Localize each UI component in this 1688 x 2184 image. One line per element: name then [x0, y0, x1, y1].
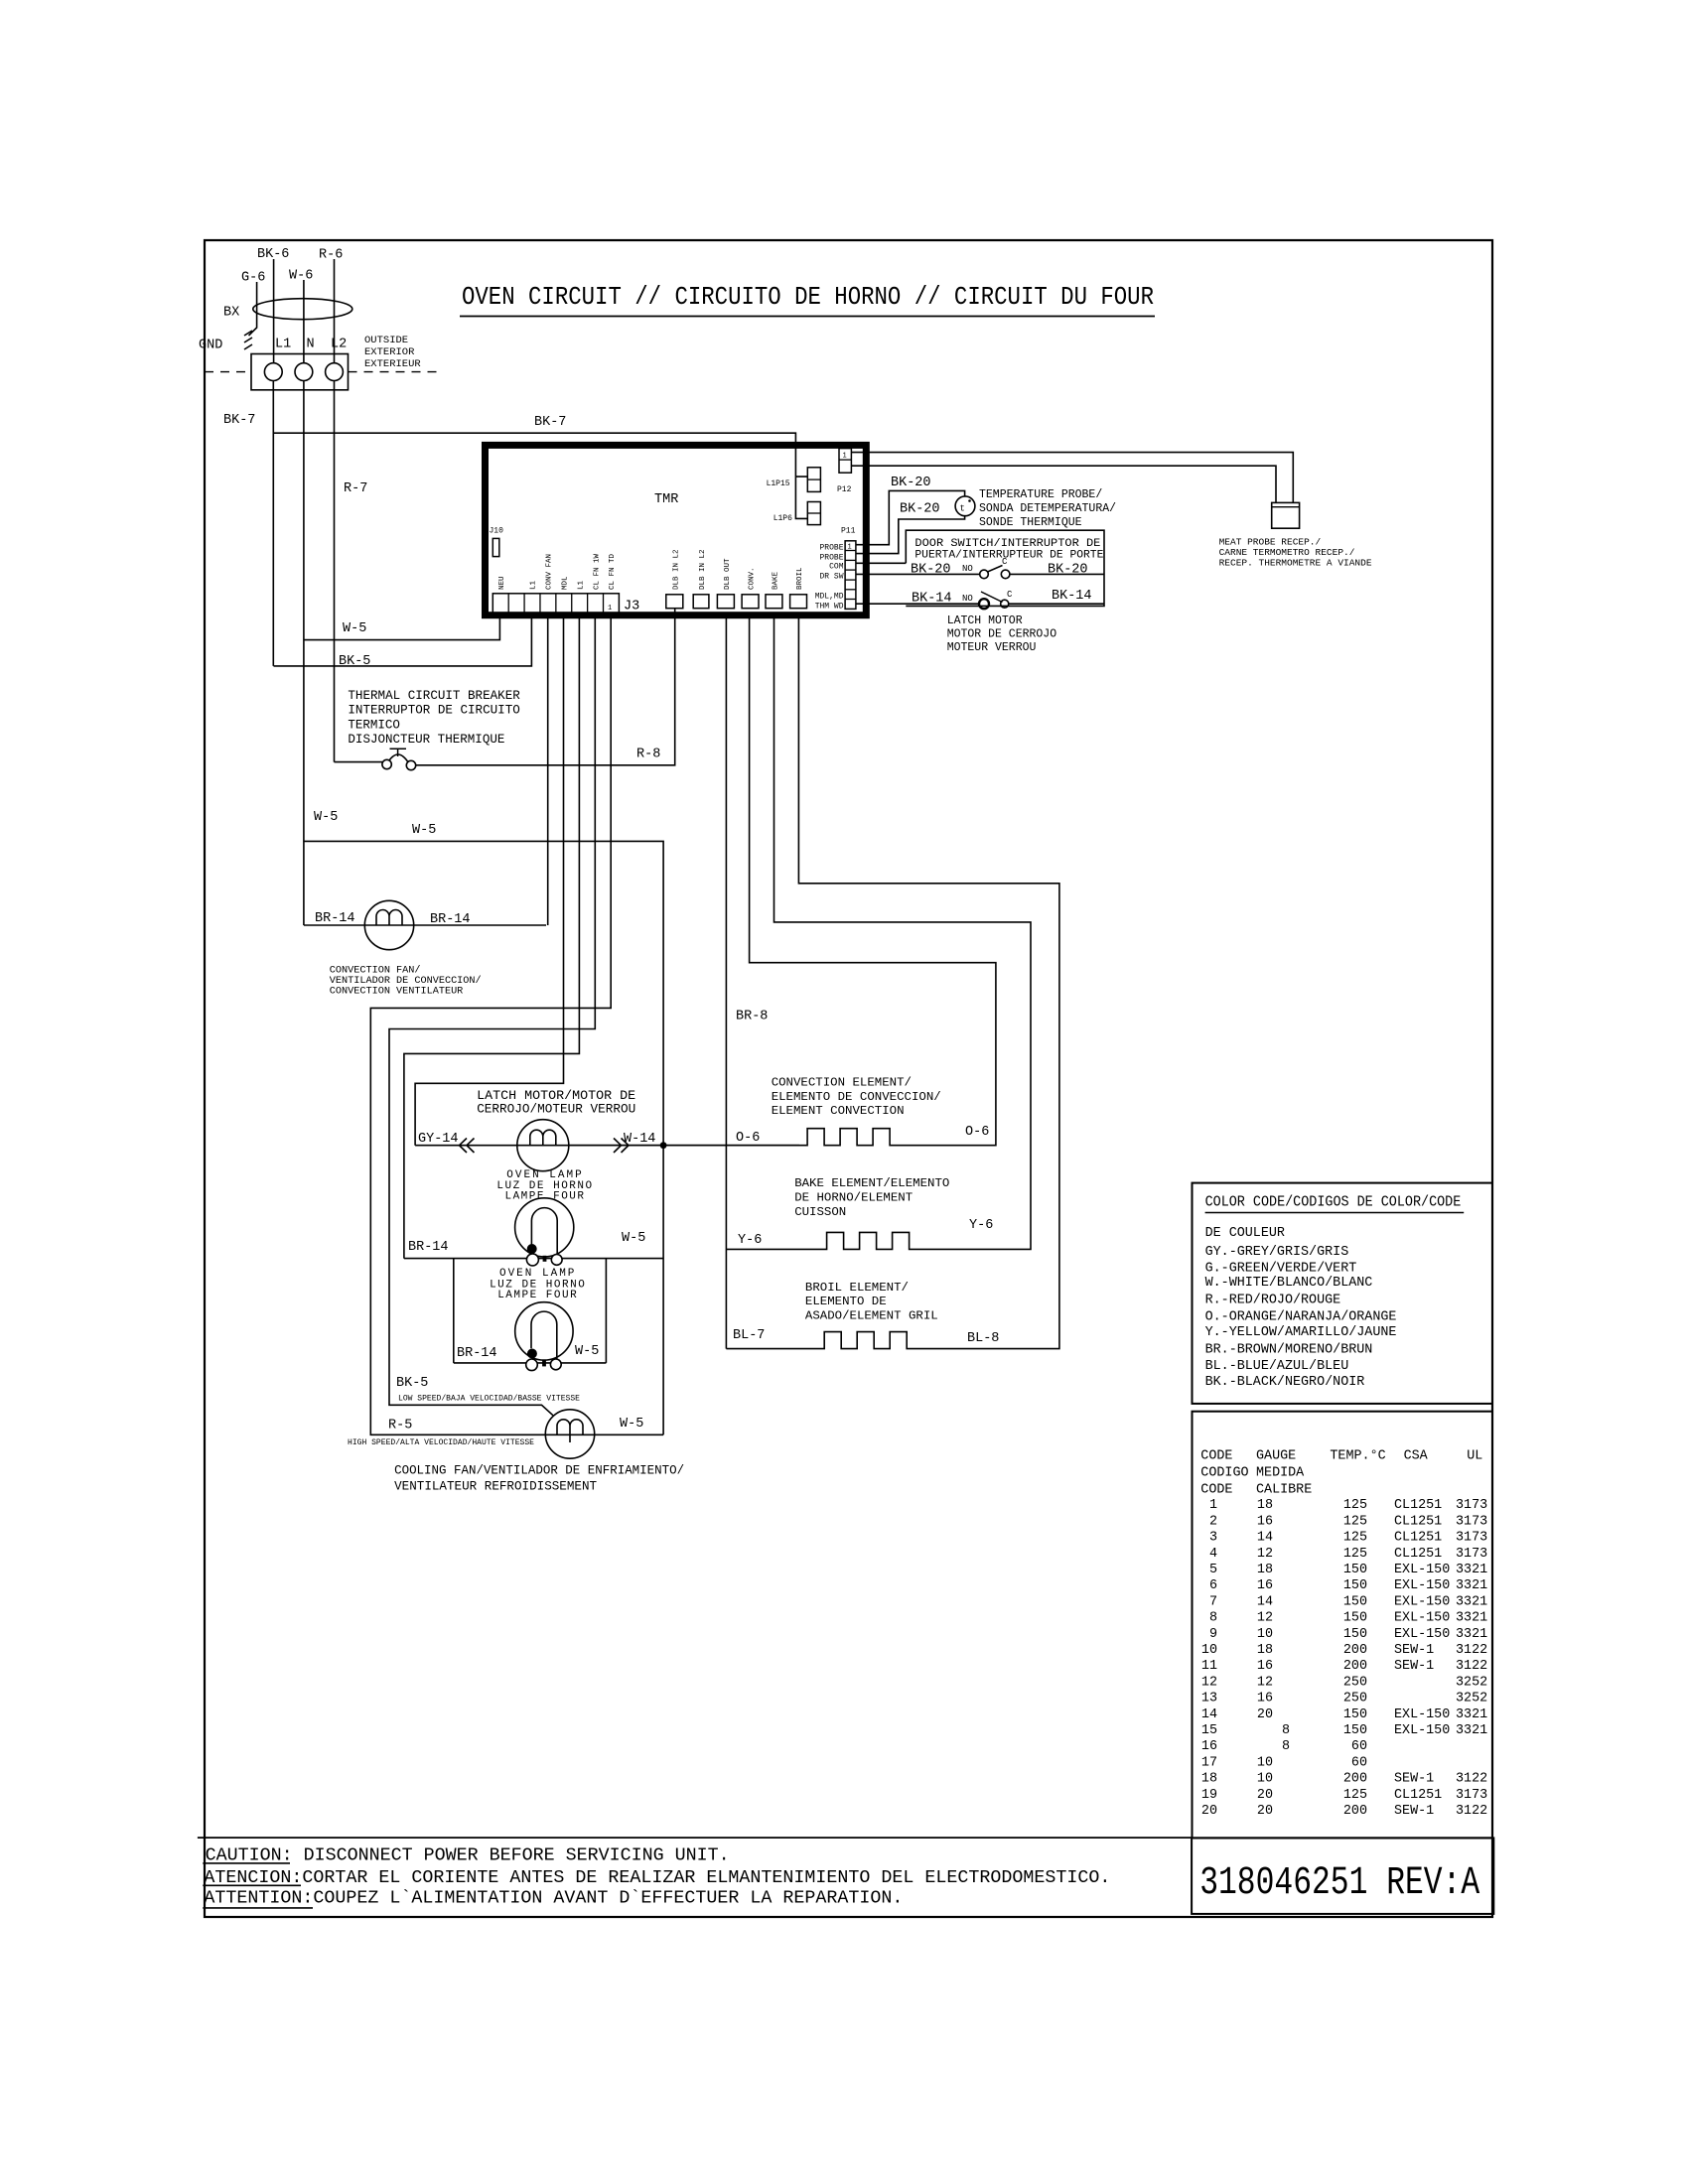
svg-text:250: 250: [1343, 1675, 1367, 1690]
svg-text:W-5: W-5: [575, 1344, 599, 1359]
svg-text:3252: 3252: [1456, 1675, 1487, 1690]
svg-text:CL1251: CL1251: [1394, 1531, 1442, 1546]
svg-text:OVEN CIRCUIT // CIRCUITO DE HO: OVEN CIRCUIT // CIRCUITO DE HORNO // CIR…: [462, 282, 1154, 312]
svg-text:DLB OUT: DLB OUT: [724, 558, 732, 590]
latch motor symbol: [517, 1120, 569, 1171]
svg-text:20: 20: [1257, 1788, 1273, 1803]
svg-text:L1: L1: [577, 580, 585, 590]
svg-text:13: 13: [1201, 1692, 1217, 1706]
svg-text:R-7: R-7: [344, 481, 367, 496]
svg-text:R-8: R-8: [636, 748, 660, 762]
wire conv fan to TMR: [547, 614, 549, 925]
svg-text:ATTENTION:COUPEZ L`ALIMENTATIO: ATTENTION:COUPEZ L`ALIMENTATION AVANT D`…: [204, 1889, 903, 1909]
svg-text:BL-8: BL-8: [967, 1331, 999, 1346]
terminal N circle: [295, 363, 313, 381]
svg-text:SEW-1: SEW-1: [1394, 1804, 1434, 1819]
svg-text:CL1251: CL1251: [1394, 1547, 1442, 1562]
wire L2 vertical R: [334, 381, 336, 762]
wire DR SW: [856, 573, 980, 575]
svg-text:DLB IN L2: DLB IN L2: [699, 549, 707, 590]
wire latch left: [415, 1145, 799, 1147]
svg-text:ELEMENT CONVECTION: ELEMENT CONVECTION: [772, 1104, 905, 1118]
svg-text:CL1251: CL1251: [1394, 1514, 1442, 1529]
svg-text:CONV FAN: CONV FAN: [546, 554, 554, 590]
svg-text:3173: 3173: [1456, 1547, 1487, 1562]
connector P12 top: [839, 449, 851, 474]
svg-text:CERROJO/MOTEUR VERROU: CERROJO/MOTEUR VERROU: [477, 1102, 635, 1117]
connector J10: [492, 538, 499, 556]
svg-text:GND: GND: [199, 338, 222, 352]
svg-text:TMR: TMR: [654, 492, 678, 507]
gauge table box: [1193, 1412, 1493, 1839]
svg-text:BR-8: BR-8: [736, 1010, 768, 1024]
svg-text:125: 125: [1343, 1514, 1367, 1529]
wire W-6: [303, 280, 305, 363]
oven lamp 1: [515, 1198, 574, 1257]
chevrons left: [460, 1139, 475, 1154]
svg-text:20: 20: [1201, 1804, 1217, 1819]
svg-text:15: 15: [1201, 1723, 1217, 1738]
BX cable ellipse: [253, 299, 352, 320]
svg-text:3321: 3321: [1456, 1627, 1487, 1642]
svg-text:125: 125: [1343, 1547, 1367, 1562]
svg-text:EXL-150: EXL-150: [1394, 1723, 1450, 1738]
svg-text:BK-20: BK-20: [1048, 562, 1088, 577]
lamp 1 terminals: [526, 1254, 538, 1266]
svg-text:C: C: [1007, 590, 1013, 600]
wire R-8: [416, 609, 675, 765]
svg-text:60: 60: [1351, 1739, 1367, 1754]
svg-text:14: 14: [1257, 1531, 1273, 1546]
svg-text:1: 1: [843, 453, 847, 461]
svg-text:NEU: NEU: [498, 576, 506, 590]
wire lamp row 1: [404, 1258, 663, 1260]
dashed partition line: [205, 371, 438, 373]
svg-text:MEDIDA: MEDIDA: [1256, 1465, 1305, 1480]
door switch box: [906, 530, 1104, 606]
thermal breaker symbol: [335, 761, 383, 763]
svg-text:R-5: R-5: [388, 1419, 412, 1433]
svg-text:EXL-150: EXL-150: [1394, 1594, 1450, 1609]
wire BK-6: [273, 259, 275, 363]
svg-text:OVEN LAMP: OVEN LAMP: [499, 1268, 576, 1280]
svg-text:150: 150: [1343, 1578, 1367, 1593]
svg-text:LOW SPEED/BAJA VELOCIDAD/BASSE: LOW SPEED/BAJA VELOCIDAD/BASSE VITESSE: [398, 1395, 580, 1404]
svg-text:16: 16: [1257, 1514, 1273, 1529]
lamp 2 parallel box: [454, 1259, 607, 1363]
svg-text:CODE: CODE: [1200, 1448, 1232, 1463]
svg-text:150: 150: [1343, 1594, 1367, 1609]
connector L1P6: [807, 502, 820, 525]
svg-text:PROBE: PROBE: [819, 543, 843, 552]
svg-text:10: 10: [1257, 1772, 1273, 1787]
svg-text:DE HORNO/ELEMENT: DE HORNO/ELEMENT: [794, 1191, 913, 1205]
svg-text:RECEP. THERMOMETRE A VIANDE: RECEP. THERMOMETRE A VIANDE: [1219, 558, 1372, 569]
cooling fan motor: [545, 1410, 594, 1458]
svg-text:CODE: CODE: [1200, 1482, 1232, 1497]
svg-text:BAKE: BAKE: [772, 571, 779, 590]
meat probe receptacle: [1272, 502, 1300, 528]
svg-text:CUISSON: CUISSON: [794, 1205, 846, 1219]
svg-text:3173: 3173: [1456, 1788, 1487, 1803]
svg-text:BR.-BROWN/MORENO/BRUN: BR.-BROWN/MORENO/BRUN: [1205, 1343, 1373, 1358]
svg-text:BK-5: BK-5: [396, 1376, 428, 1391]
svg-text:BROIL ELEMENT/: BROIL ELEMENT/: [805, 1281, 909, 1295]
svg-text:C: C: [1002, 557, 1008, 567]
svg-text:W-6: W-6: [289, 269, 313, 284]
svg-text:5: 5: [1209, 1563, 1217, 1577]
svg-text:BK-7: BK-7: [534, 415, 566, 430]
svg-text:EXL-150: EXL-150: [1394, 1611, 1450, 1626]
svg-text:EXL-150: EXL-150: [1394, 1707, 1450, 1722]
svg-text:18: 18: [1257, 1498, 1273, 1513]
svg-text:6: 6: [1209, 1578, 1217, 1593]
svg-text:200: 200: [1343, 1659, 1367, 1674]
svg-text:BK.-BLACK/NEGRO/NOIR: BK.-BLACK/NEGRO/NOIR: [1205, 1375, 1365, 1390]
broil element symbol: [726, 614, 1059, 1349]
svg-text:R-6: R-6: [319, 248, 343, 263]
svg-text:318046251 REV:A: 318046251 REV:A: [1199, 1861, 1479, 1906]
svg-text:BK-14: BK-14: [912, 591, 952, 606]
svg-text:G.-GREEN/VERDE/VERT: G.-GREEN/VERDE/VERT: [1205, 1261, 1357, 1276]
svg-text:W.-WHITE/BLANCO/BLANC: W.-WHITE/BLANCO/BLANC: [1205, 1276, 1373, 1291]
connector J3: [492, 594, 619, 614]
svg-text:125: 125: [1343, 1531, 1367, 1546]
svg-text:CL1251: CL1251: [1394, 1498, 1442, 1513]
svg-text:W-5: W-5: [314, 810, 338, 825]
svg-text:EXL-150: EXL-150: [1394, 1563, 1450, 1577]
svg-text:GY.-GREY/GRIS/GRIS: GY.-GREY/GRIS/GRIS: [1205, 1245, 1349, 1260]
svg-text:EXL-150: EXL-150: [1394, 1627, 1450, 1642]
svg-text:8: 8: [1282, 1723, 1290, 1738]
svg-text:SONDE THERMIQUE: SONDE THERMIQUE: [979, 516, 1082, 529]
svg-text:4: 4: [1209, 1547, 1217, 1562]
svg-text:THM WD: THM WD: [815, 603, 844, 612]
svg-text:DR SW: DR SW: [819, 573, 843, 582]
svg-text:3: 3: [1209, 1531, 1217, 1546]
svg-text:3122: 3122: [1456, 1643, 1487, 1658]
svg-text:O-6: O-6: [965, 1125, 989, 1140]
svg-text:L1P15: L1P15: [767, 479, 790, 488]
svg-text:10: 10: [1201, 1643, 1217, 1658]
terminal block OUTSIDE: [251, 354, 349, 390]
svg-text:1: 1: [1209, 1498, 1217, 1513]
connector L1P15: [807, 468, 820, 492]
svg-text:EXTERIOR: EXTERIOR: [364, 346, 415, 358]
svg-text:3321: 3321: [1456, 1594, 1487, 1609]
control board TMR outline: [486, 445, 867, 614]
svg-text:LAMPE FOUR: LAMPE FOUR: [497, 1290, 578, 1301]
svg-text:ELEMENTO DE CONVECCION/: ELEMENTO DE CONVECCION/: [772, 1090, 941, 1104]
wire L1 vertical BK: [272, 381, 274, 666]
svg-text:BR-14: BR-14: [408, 1240, 449, 1255]
chevrons right: [614, 1139, 629, 1154]
svg-text:W-5: W-5: [343, 621, 366, 636]
svg-text:2: 2: [1209, 1514, 1217, 1529]
svg-text:BK-20: BK-20: [911, 562, 951, 577]
svg-text:BROIL: BROIL: [796, 567, 804, 590]
svg-text:250: 250: [1343, 1692, 1367, 1706]
svg-text:DE COULEUR: DE COULEUR: [1205, 1226, 1285, 1241]
svg-text:19: 19: [1201, 1788, 1217, 1803]
wire BK-5 low speed: [389, 614, 595, 1416]
svg-text:J3: J3: [624, 600, 639, 614]
svg-text:BR-14: BR-14: [430, 912, 471, 927]
svg-text:THERMAL CIRCUIT BREAKER: THERMAL CIRCUIT BREAKER: [348, 689, 520, 703]
svg-text:3321: 3321: [1456, 1578, 1487, 1593]
wire THM WD BK-14: [856, 603, 979, 605]
svg-text:3252: 3252: [1456, 1692, 1487, 1706]
svg-text:DISJONCTEUR THERMIQUE: DISJONCTEUR THERMIQUE: [348, 733, 504, 747]
svg-text:16: 16: [1257, 1692, 1273, 1706]
border frame: [205, 240, 1492, 1917]
wire BR-14 lamp feed: [404, 614, 580, 1259]
wire BK-5 pin3: [274, 614, 532, 666]
svg-text:EXL-150: EXL-150: [1394, 1578, 1450, 1593]
caution separator line: [198, 1837, 1192, 1839]
convection element symbol: [750, 614, 996, 1146]
svg-text:150: 150: [1343, 1723, 1367, 1738]
svg-text:N: N: [307, 338, 315, 352]
svg-text:CONV.: CONV.: [749, 567, 757, 590]
svg-text:OUTSIDE: OUTSIDE: [364, 335, 408, 346]
svg-text:PROBE: PROBE: [819, 553, 843, 562]
svg-text:3122: 3122: [1456, 1804, 1487, 1819]
terminal L1 circle: [264, 363, 282, 381]
svg-text:BAKE ELEMENT/ELEMENTO: BAKE ELEMENT/ELEMENTO: [794, 1176, 949, 1190]
svg-text:t: t: [960, 504, 965, 514]
svg-text:L2: L2: [331, 338, 347, 352]
svg-text:O-6: O-6: [736, 1131, 760, 1146]
svg-text:9: 9: [1209, 1627, 1217, 1642]
wire W-5 main: [304, 841, 663, 1434]
svg-text:125: 125: [1343, 1498, 1367, 1513]
svg-text:CONVECTION FAN/: CONVECTION FAN/: [330, 965, 421, 977]
wire COM: [856, 562, 906, 564]
svg-text:12: 12: [1201, 1675, 1217, 1690]
svg-text:BK-20: BK-20: [900, 502, 940, 517]
svg-text:BK-5: BK-5: [339, 654, 370, 669]
svg-text:8: 8: [1282, 1739, 1290, 1754]
svg-text:W-5: W-5: [620, 1417, 643, 1432]
color code box: [1193, 1183, 1493, 1404]
svg-text:200: 200: [1343, 1804, 1367, 1819]
svg-text:MEAT PROBE RECEP./: MEAT PROBE RECEP./: [1219, 537, 1322, 548]
svg-text:J10: J10: [490, 527, 504, 536]
svg-text:TEMP.°C: TEMP.°C: [1330, 1448, 1385, 1463]
svg-text:L1P6: L1P6: [774, 514, 792, 523]
wire latch right: [569, 1145, 799, 1147]
svg-text:CODIGO: CODIGO: [1200, 1465, 1248, 1480]
svg-text:16: 16: [1257, 1578, 1273, 1593]
svg-text:CL1251: CL1251: [1394, 1788, 1442, 1803]
svg-text:MDL,MD: MDL,MD: [815, 593, 844, 602]
svg-text:VENTILADOR DE CONVECCION/: VENTILADOR DE CONVECCION/: [330, 975, 482, 987]
svg-text:18: 18: [1257, 1563, 1273, 1577]
svg-text:P11: P11: [841, 527, 856, 536]
svg-text:16: 16: [1201, 1739, 1217, 1754]
svg-text:NO: NO: [962, 594, 973, 604]
svg-text:L1: L1: [275, 338, 291, 352]
svg-text:17: 17: [1201, 1755, 1217, 1770]
door switch contacts: [980, 570, 989, 579]
svg-text:ELEMENTO DE: ELEMENTO DE: [805, 1295, 887, 1308]
svg-text:16: 16: [1257, 1659, 1273, 1674]
convection fan motor: [364, 900, 413, 949]
svg-text:L1: L1: [530, 580, 538, 590]
svg-text:60: 60: [1351, 1755, 1367, 1770]
svg-text:7: 7: [1209, 1594, 1217, 1609]
wire to meat probe recep 2: [851, 466, 1276, 502]
svg-text:W-5: W-5: [412, 823, 436, 838]
svg-text:18: 18: [1257, 1643, 1273, 1658]
wire BR-14 conv fan: [304, 924, 546, 926]
svg-text:3173: 3173: [1456, 1498, 1487, 1513]
wire BR-8 vertical: [725, 614, 727, 1349]
svg-text:12: 12: [1257, 1611, 1273, 1626]
svg-text:BL.-BLUE/AZUL/BLEU: BL.-BLUE/AZUL/BLEU: [1205, 1359, 1349, 1374]
svg-text:VENTILATEUR REFROIDISSEMENT: VENTILATEUR REFROIDISSEMENT: [394, 1479, 597, 1494]
svg-text:R.-RED/ROJO/ROUGE: R.-RED/ROJO/ROUGE: [1205, 1294, 1341, 1308]
bake element symbol: [726, 614, 1031, 1249]
oven lamp 2: [515, 1302, 573, 1360]
svg-text:200: 200: [1343, 1772, 1367, 1787]
svg-text:BX: BX: [223, 306, 239, 321]
wire W-5 pin1: [304, 614, 500, 640]
svg-text:20: 20: [1257, 1804, 1273, 1819]
svg-text:10: 10: [1257, 1627, 1273, 1642]
wire N vertical W: [303, 381, 305, 926]
svg-text:MOTEUR VERROU: MOTEUR VERROU: [947, 641, 1037, 654]
svg-text:18: 18: [1201, 1772, 1217, 1787]
ground chassis symbol: [244, 282, 257, 349]
svg-text:O.-ORANGE/NARANJA/ORANGE: O.-ORANGE/NARANJA/ORANGE: [1205, 1309, 1397, 1324]
svg-text:P12: P12: [837, 485, 852, 494]
svg-text:HIGH SPEED/ALTA VELOCIDAD/HAUT: HIGH SPEED/ALTA VELOCIDAD/HAUTE VITESSE: [348, 1438, 534, 1447]
svg-text:1: 1: [848, 544, 852, 552]
svg-text:ATENCION:CORTAR EL CORIENTE AN: ATENCION:CORTAR EL CORIENTE ANTES DE REA…: [204, 1868, 1110, 1888]
svg-text:3173: 3173: [1456, 1531, 1487, 1546]
svg-text:BR-14: BR-14: [457, 1346, 497, 1361]
svg-text:UL: UL: [1467, 1448, 1482, 1463]
svg-text:MOTOR DE CERROJO: MOTOR DE CERROJO: [947, 628, 1057, 641]
svg-text:COOLING FAN/VENTILADOR DE ENFR: COOLING FAN/VENTILADOR DE ENFRIAMIENTO/: [394, 1463, 684, 1478]
svg-text:3122: 3122: [1456, 1659, 1487, 1674]
latch switch contacts: [979, 599, 989, 609]
svg-text:3321: 3321: [1456, 1723, 1487, 1738]
svg-text:11: 11: [1201, 1659, 1217, 1674]
connector P11 column: [845, 541, 856, 610]
svg-text:Y.-YELLOW/AMARILLO/JAUNE: Y.-YELLOW/AMARILLO/JAUNE: [1205, 1325, 1397, 1340]
svg-text:8: 8: [1209, 1611, 1217, 1626]
svg-text:150: 150: [1343, 1627, 1367, 1642]
svg-text:TERMICO: TERMICO: [348, 718, 400, 732]
svg-text:14: 14: [1257, 1594, 1273, 1609]
svg-text:LAMPE FOUR: LAMPE FOUR: [504, 1191, 585, 1203]
terminal L2 circle: [326, 363, 344, 381]
svg-text:SEW-1: SEW-1: [1394, 1772, 1434, 1787]
svg-text:10: 10: [1257, 1755, 1273, 1770]
svg-text:SONDA DETEMPERATURA/: SONDA DETEMPERATURA/: [979, 502, 1116, 515]
svg-text:NO: NO: [962, 564, 973, 574]
wire BK-7: [273, 433, 807, 518]
svg-text:3321: 3321: [1456, 1611, 1487, 1626]
svg-text:150: 150: [1343, 1563, 1367, 1577]
wire BK-20 probe upper: [856, 490, 965, 544]
wire GY-14 latch feed: [415, 614, 563, 1146]
svg-text:3173: 3173: [1456, 1514, 1487, 1529]
wire R-6: [334, 259, 336, 363]
svg-text:INTERRUPTOR DE CIRCUITO: INTERRUPTOR DE CIRCUITO: [348, 704, 519, 718]
svg-text:COLOR CODE/CODIGOS DE COLOR/CO: COLOR CODE/CODIGOS DE COLOR/CODE: [1205, 1195, 1462, 1211]
svg-text:EXTERIEUR: EXTERIEUR: [364, 358, 421, 370]
svg-text:CL FN 1W: CL FN 1W: [593, 553, 601, 590]
temperature probe symbol: [955, 496, 975, 516]
svg-text:DLB IN L2: DLB IN L2: [672, 549, 680, 590]
svg-text:BK-7: BK-7: [223, 413, 255, 428]
wire BK-20 probe lower: [856, 516, 965, 554]
svg-text:W-5: W-5: [622, 1231, 645, 1246]
svg-text:CONVECTION VENTILATEUR: CONVECTION VENTILATEUR: [330, 987, 464, 998]
svg-text:12: 12: [1257, 1675, 1273, 1690]
svg-text:Y-6: Y-6: [738, 1233, 762, 1248]
svg-text:125: 125: [1343, 1788, 1367, 1803]
svg-text:Y-6: Y-6: [969, 1218, 993, 1233]
svg-text:BL-7: BL-7: [733, 1328, 765, 1343]
svg-text:DOOR SWITCH/INTERRUPTOR DE: DOOR SWITCH/INTERRUPTOR DE: [914, 538, 1100, 550]
svg-text:TEMPERATURE PROBE/: TEMPERATURE PROBE/: [979, 488, 1102, 501]
svg-text:GY-14: GY-14: [418, 1132, 459, 1147]
lamp 2 terminals: [526, 1359, 538, 1371]
svg-text:CALIBRE: CALIBRE: [1256, 1482, 1312, 1497]
svg-text:BR-14: BR-14: [315, 911, 355, 926]
svg-text:ASADO/ELEMENT GRIL: ASADO/ELEMENT GRIL: [805, 1308, 938, 1322]
svg-text:BK-14: BK-14: [1052, 589, 1092, 604]
wire R-5 high speed: [370, 614, 663, 1434]
svg-text:150: 150: [1343, 1707, 1367, 1722]
svg-text:SEW-1: SEW-1: [1394, 1659, 1434, 1674]
TMR output connectors: [666, 595, 683, 609]
svg-text:3122: 3122: [1456, 1772, 1487, 1787]
svg-text:12: 12: [1257, 1547, 1273, 1562]
svg-text:BK-20: BK-20: [891, 476, 931, 490]
part number box: [1192, 1838, 1493, 1914]
svg-text:14: 14: [1201, 1707, 1217, 1722]
svg-text:G-6: G-6: [241, 271, 265, 286]
svg-text:SEW-1: SEW-1: [1394, 1643, 1434, 1658]
svg-text:CARNE TERMOMETRO RECEP./: CARNE TERMOMETRO RECEP./: [1219, 547, 1355, 558]
svg-text:150: 150: [1343, 1611, 1367, 1626]
svg-text:3321: 3321: [1456, 1707, 1487, 1722]
wire to meat probe recep 1: [851, 453, 1293, 503]
svg-text:1: 1: [608, 605, 612, 613]
svg-text:200: 200: [1343, 1643, 1367, 1658]
svg-text:3321: 3321: [1456, 1563, 1487, 1577]
svg-text:LATCH MOTOR: LATCH MOTOR: [947, 614, 1023, 627]
svg-text:GAUGE: GAUGE: [1256, 1448, 1296, 1463]
junction dot W net: [660, 1142, 667, 1149]
svg-text:COM: COM: [829, 563, 844, 572]
svg-text:PUERTA/INTERRUPTEUR DE PORTE: PUERTA/INTERRUPTEUR DE PORTE: [914, 550, 1103, 562]
svg-text:MDL: MDL: [562, 576, 570, 590]
svg-text:CL FN TD: CL FN TD: [609, 553, 617, 590]
svg-text:CONVECTION ELEMENT/: CONVECTION ELEMENT/: [772, 1076, 912, 1090]
svg-text:20: 20: [1257, 1707, 1273, 1722]
svg-text:CSA: CSA: [1404, 1448, 1429, 1463]
